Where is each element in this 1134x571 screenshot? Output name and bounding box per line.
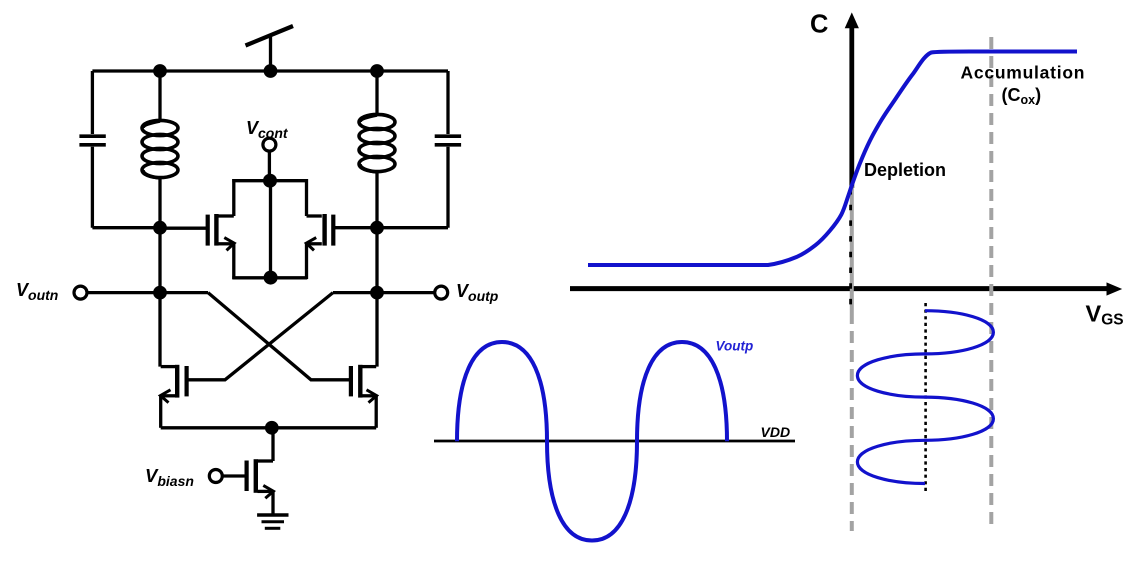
varactor top rail (232, 179, 307, 182)
VDD reference line (434, 440, 795, 443)
svg-text:Voutp: Voutp (456, 281, 499, 304)
inductor L1 (142, 71, 178, 228)
capacitor C1 branch (79, 71, 160, 228)
circuit labels (16, 118, 499, 489)
svg-text:Vcont: Vcont (246, 118, 289, 141)
varactor bottom rail (232, 276, 307, 279)
wire varactor center column (269, 181, 272, 278)
node Voutp (370, 286, 384, 300)
terminal Voutn (74, 286, 87, 299)
node varactor top (263, 174, 277, 188)
node Voutn (153, 286, 167, 300)
waveform on dashed axis (857, 311, 993, 484)
svg-text:C: C (810, 11, 828, 39)
node right tank (370, 221, 384, 235)
terminal circles (74, 138, 448, 482)
dotted line depletion (849, 189, 852, 309)
Vcont wire (268, 151, 271, 181)
node top-right (370, 64, 384, 78)
svg-text:(Cox): (Cox) (1002, 85, 1042, 107)
varactor MC1 (160, 179, 234, 279)
dotted line wave axis (924, 303, 927, 492)
varactor MC2 (306, 179, 377, 279)
VDD supply symbol (246, 26, 294, 71)
wire cross-couple left-to-right gate (208, 293, 350, 380)
wire top rail (92, 69, 448, 72)
wire Voutn (87, 291, 209, 294)
wire Voutp (333, 291, 435, 294)
y axis C (845, 12, 859, 188)
svg-text:VGS: VGS (1086, 301, 1124, 329)
terminal Voutp (435, 286, 448, 299)
capacitor C2 branch (377, 71, 461, 228)
wire right column (375, 228, 378, 367)
svg-text:Vbiasn: Vbiasn (145, 465, 194, 489)
svg-text:Accumulation: Accumulation (961, 63, 1086, 83)
transistor M1 (160, 365, 186, 428)
terminal Vcont (263, 138, 276, 151)
wire cross-couple right-to-left gate (189, 293, 334, 380)
node top-center (264, 64, 278, 78)
waveform Voutp (457, 342, 727, 541)
terminal Vbiasn (209, 470, 222, 483)
svg-text:Voutp: Voutp (716, 339, 754, 354)
wire bottom rail (161, 426, 377, 429)
transistor M2 (351, 365, 377, 428)
svg-text:Voutn: Voutn (16, 280, 58, 303)
inductor L2 (359, 71, 395, 228)
dashed line left (850, 186, 854, 312)
svg-text:Depletion: Depletion (864, 160, 946, 180)
node tail (265, 421, 279, 435)
junction dots (153, 64, 384, 435)
transistor M3 tail (222, 428, 273, 515)
node top-left (153, 64, 167, 78)
ground (257, 515, 288, 528)
wire left column (158, 228, 161, 367)
node left tank (153, 221, 167, 235)
dashed line right (989, 37, 993, 531)
svg-text:VDD: VDD (761, 424, 791, 440)
node varactor bottom (264, 271, 278, 285)
C-V curve (588, 52, 1077, 266)
x axis VGS (570, 282, 1122, 295)
